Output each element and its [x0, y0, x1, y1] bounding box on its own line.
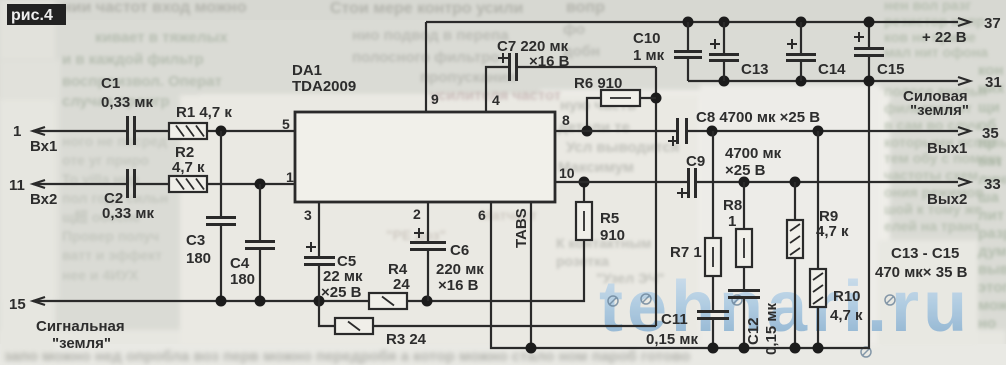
- svg-text:C10: C10: [633, 30, 661, 47]
- wire pin 2 to C6: [427, 202, 429, 241]
- terminal 33 arrow: [958, 178, 970, 186]
- svg-text:"РЕ доз": "РЕ доз": [386, 227, 446, 243]
- wire pin 10 to R5: [583, 182, 585, 202]
- svg-text:C1: C1: [101, 75, 120, 92]
- svg-text:C8 4700 мк ×25 В: C8 4700 мк ×25 В: [696, 109, 820, 126]
- wire C12 to rail: [743, 299, 745, 348]
- node junction R1/C3: [216, 126, 227, 137]
- node C14/rail: [796, 17, 807, 28]
- wire node X vertical: [655, 67, 657, 326]
- wire C8 to output 35: [688, 130, 958, 132]
- svg-text:"земля": "земля": [52, 335, 111, 352]
- svg-text:1: 1: [13, 123, 21, 140]
- svg-text:С12: С12: [745, 317, 762, 345]
- svg-text:9: 9: [431, 91, 439, 107]
- svg-text:24: 24: [393, 276, 410, 293]
- capacitor C13: [709, 55, 739, 61]
- svg-text:31: 31: [985, 74, 1002, 91]
- wire C2 to R2: [136, 183, 169, 185]
- svg-text:×16 В: ×16 В: [438, 277, 479, 294]
- svg-text:этог: этог: [978, 279, 1006, 296]
- capacitor C15: [854, 49, 884, 56]
- capacitor C9: [689, 168, 696, 198]
- svg-text:C14: C14: [818, 61, 846, 78]
- svg-text:35: 35: [982, 125, 999, 142]
- resistor R9: [787, 220, 803, 258]
- svg-text:дум: дум: [978, 243, 1006, 260]
- svg-text:2: 2: [413, 206, 421, 222]
- svg-text:R3 24: R3 24: [386, 331, 427, 348]
- plus sign C14: [787, 39, 797, 49]
- node R9/out2: [790, 177, 801, 188]
- svg-text:910: 910: [600, 227, 625, 244]
- node C11/rail: [708, 343, 719, 354]
- wire C11 to rail: [712, 320, 714, 348]
- wire input2 to C2: [33, 183, 126, 185]
- svg-text:Усл выводится: Усл выводится: [566, 139, 679, 156]
- capacitor C4: [245, 242, 275, 249]
- resistor R5: [576, 202, 592, 240]
- svg-text:TDA2009: TDA2009: [292, 78, 356, 95]
- capacitor C3: [206, 218, 236, 225]
- svg-text:выв: выв: [978, 261, 1006, 278]
- capacitor C8: [678, 118, 687, 144]
- wire pin 4 to C7: [486, 67, 508, 112]
- svg-text:Сигнальная: Сигнальная: [36, 318, 125, 335]
- capacitor C7: [510, 53, 517, 81]
- svg-text:Провер получ: Провер получ: [62, 228, 159, 244]
- plus sign C15: [854, 32, 864, 42]
- wire signal ground rail left: [33, 300, 369, 302]
- svg-text:и в каждой фильтр: и в каждой фильтр: [62, 51, 204, 68]
- svg-text:нее и 4ИУХ: нее и 4ИУХ: [62, 267, 139, 283]
- node R8/out2: [739, 177, 750, 188]
- plus sign C8: [668, 136, 678, 146]
- wire ground rail right of R4 to R5 corner: [406, 240, 584, 301]
- resistor R1: [169, 123, 207, 139]
- svg-text:C13: C13: [741, 61, 769, 78]
- wire C1 to R1: [136, 130, 169, 132]
- svg-text:но: но: [978, 315, 996, 332]
- node C15/rail: [864, 17, 875, 28]
- wire power ground rail: [688, 80, 958, 82]
- C10 value label: [633, 30, 665, 64]
- resistor R6: [601, 90, 640, 106]
- node TABS/rail: [526, 343, 537, 354]
- svg-text:33: 33: [984, 176, 1001, 193]
- capacitor C11: [697, 312, 729, 319]
- svg-text:×25 В: ×25 В: [321, 284, 362, 301]
- wire C15 top segment: [868, 22, 870, 47]
- capacitor C6: [410, 243, 446, 250]
- wire R9 top lead: [794, 182, 796, 220]
- wire input1 to C1: [33, 130, 126, 132]
- wire pin 10 to C9: [555, 181, 687, 183]
- node junction R2/C4: [255, 179, 266, 190]
- svg-text:1 мк: 1 мк: [633, 47, 665, 64]
- R2 value label: [172, 144, 205, 176]
- svg-text:R8: R8: [723, 197, 742, 214]
- svg-text:4,7 к: 4,7 к: [816, 223, 849, 240]
- terminal 37 arrow: [958, 18, 970, 26]
- C3 value label: [186, 232, 211, 267]
- svg-text:"земля": "земля": [910, 102, 969, 119]
- C11 value label: [646, 311, 698, 348]
- wire C6 to node: [427, 251, 429, 301]
- svg-text:1: 1: [286, 169, 294, 185]
- plus sign C13: [710, 39, 720, 49]
- svg-text:рис.4: рис.4: [11, 7, 53, 24]
- node R5/pin10: [579, 177, 590, 188]
- resistor R8: [736, 229, 752, 267]
- node C13/rail: [719, 17, 730, 28]
- wire node to C3: [220, 131, 222, 216]
- svg-text:C4: C4: [230, 255, 250, 272]
- svg-text:нен вол разг: нен вол разг: [884, 0, 971, 13]
- wire C9 to output 33: [697, 181, 958, 183]
- C9 value label: [686, 145, 782, 179]
- wire R8 top lead: [743, 182, 745, 229]
- power ground label: [903, 88, 969, 119]
- C1 value label: [101, 75, 153, 111]
- R8 value label: [723, 197, 742, 230]
- capacitor C5: [304, 258, 335, 265]
- node C5/ground: [314, 296, 325, 307]
- svg-text:C3: C3: [186, 232, 205, 249]
- capacitor C14: [786, 55, 816, 61]
- svg-text:С13 - С15: С13 - С15: [891, 245, 959, 262]
- wire pin 3 to C5: [318, 202, 320, 256]
- svg-text:0,15 мк: 0,15 мк: [763, 303, 780, 355]
- figure label ris.4: [7, 4, 66, 25]
- svg-text:1: 1: [728, 213, 736, 230]
- R5 value label: [600, 210, 625, 244]
- node C6/R4: [422, 296, 433, 307]
- node R10/rail: [813, 343, 824, 354]
- C7 value label: [497, 38, 570, 70]
- svg-text:C9: C9: [686, 153, 705, 170]
- capacitor C10: [674, 52, 702, 58]
- terminal 35 arrow: [958, 127, 970, 135]
- wire C13 bottom lead: [723, 62, 725, 81]
- wire C10 top lead: [687, 22, 689, 50]
- node R10/out1: [813, 126, 824, 137]
- wire C4 to ground rail: [259, 249, 261, 301]
- svg-text:4700 мк: 4700 мк: [725, 145, 782, 162]
- svg-text:ного не посред: ного не посред: [62, 133, 167, 149]
- svg-text:лит: лит: [978, 207, 1004, 224]
- svg-text:10: 10: [559, 165, 575, 181]
- svg-text:Вых2: Вых2: [927, 191, 967, 208]
- svg-text:+ 22 В: + 22 В: [922, 29, 967, 46]
- node R9/rail: [790, 343, 801, 354]
- svg-text:Вх1: Вх1: [30, 138, 57, 155]
- wire R8 to C12: [743, 267, 745, 289]
- resistor R3: [335, 318, 373, 334]
- wire R10 top lead: [817, 131, 819, 269]
- C6 value label: [436, 242, 484, 294]
- wire pin 6 down and bottom ground rail: [491, 56, 869, 348]
- wire pin 8 to C8: [555, 130, 676, 132]
- svg-text:DA1: DA1: [292, 62, 322, 79]
- capacitor C2: [128, 169, 135, 198]
- svg-text:4,7 к: 4,7 к: [830, 307, 863, 324]
- svg-text:4: 4: [492, 92, 500, 108]
- svg-text:37: 37: [984, 15, 1001, 32]
- svg-text:220 мк: 220 мк: [436, 261, 484, 278]
- svg-text:5: 5: [282, 116, 290, 132]
- node R6/C7: [651, 93, 662, 104]
- wire R3 jog from ground node: [319, 301, 335, 326]
- node C12/rail: [739, 343, 750, 354]
- wire node to C4: [259, 184, 261, 240]
- capacitor C12: [728, 291, 760, 298]
- svg-text:11: 11: [9, 177, 25, 194]
- node C14/ground: [796, 76, 807, 87]
- svg-text:R6 910: R6 910: [574, 75, 622, 92]
- svg-text:кивает в тяжелых: кивает в тяжелых: [95, 29, 228, 46]
- C4 value label: [230, 255, 255, 288]
- capacitor C1: [128, 116, 135, 145]
- wire TABS pin down: [530, 202, 532, 348]
- svg-text:Вх2: Вх2: [30, 191, 57, 208]
- wire R6 right lead: [640, 97, 656, 99]
- wire C14 bottom lead: [800, 62, 802, 81]
- terminal 11 arrow Vx2: [33, 180, 45, 188]
- R10 value label: [830, 288, 863, 324]
- wire C7 to node X: [518, 66, 656, 68]
- wire R7 top lead: [712, 131, 714, 238]
- svg-text:елей на транз: елей на транз: [884, 218, 980, 234]
- svg-text:470 мк× 35 В: 470 мк× 35 В: [875, 264, 968, 281]
- svg-text:воспроизвол. Операт: воспроизвол. Операт: [62, 73, 222, 90]
- wire R9 bottom lead: [794, 258, 796, 348]
- resistor R4: [369, 293, 407, 309]
- svg-text:6: 6: [478, 207, 486, 223]
- svg-text:ватт и эффект: ватт и эффект: [62, 247, 162, 263]
- svg-text:Стои мере контро усили: Стои мере контро усили: [330, 0, 523, 17]
- wire C13 top lead: [723, 22, 725, 53]
- op-amp U1 TDA2009 body: [295, 112, 555, 202]
- C5 value label: [321, 253, 363, 301]
- svg-text:нио подвод в перепа: нио подвод в перепа: [352, 27, 509, 44]
- svg-text:C6: C6: [450, 242, 469, 259]
- plus sign C9: [677, 188, 687, 198]
- svg-text:щи: щи: [978, 99, 1000, 116]
- svg-text:С11: С11: [661, 311, 688, 328]
- node C10/rail: [683, 17, 694, 28]
- svg-text:ват: ват: [978, 153, 1003, 170]
- svg-text:22 мк: 22 мк: [323, 268, 363, 285]
- node C3/ground: [216, 296, 227, 307]
- plus sign C5: [306, 242, 316, 252]
- C2 value label: [102, 190, 154, 222]
- svg-text:4,7 к: 4,7 к: [172, 159, 205, 176]
- svg-text:мал нит офона: мал нит офона: [884, 44, 988, 60]
- node C15/ground: [864, 76, 875, 87]
- svg-text:оте уг приро: оте уг приро: [62, 152, 149, 168]
- node C13/ground: [719, 76, 730, 87]
- resistor R7: [705, 238, 721, 276]
- IC designator DA1 TDA2009: [292, 62, 356, 95]
- svg-text:0,33 мк: 0,33 мк: [102, 205, 154, 222]
- wire R6 left lead to pin 8 line: [587, 98, 601, 131]
- wire R1 to pin 5: [207, 130, 295, 132]
- svg-text:0,33 мк: 0,33 мк: [101, 94, 153, 111]
- svg-text:R10: R10: [833, 288, 861, 305]
- svg-text:×16 В: ×16 В: [529, 53, 570, 70]
- R9 value label: [816, 208, 849, 240]
- R4 value label: [388, 261, 410, 293]
- resistor R10: [810, 269, 826, 307]
- node R6/pin8: [582, 126, 593, 137]
- svg-text:15: 15: [9, 296, 26, 313]
- wire C5 to ground: [318, 265, 320, 301]
- wire C14 top lead: [800, 22, 802, 53]
- svg-text:нии частот вход можно: нии частот вход можно: [62, 0, 247, 16]
- wire +22V rail: [426, 21, 958, 23]
- wire R3 to node X: [373, 325, 656, 327]
- terminal 15 arrow signal ground: [33, 297, 45, 305]
- wire pin 9 to +22V rail: [425, 22, 427, 112]
- wire C10 bottom lead: [687, 59, 689, 81]
- terminal 31 arrow: [958, 77, 970, 85]
- svg-text:×25 В: ×25 В: [725, 162, 766, 179]
- svg-text:180: 180: [230, 271, 255, 288]
- svg-text:вопр: вопр: [566, 0, 605, 16]
- svg-text:мож: мож: [978, 297, 1006, 314]
- node R7/out1: [707, 126, 718, 137]
- wire R7 to C11: [712, 276, 714, 310]
- svg-text:0,15 мк: 0,15 мк: [646, 331, 698, 348]
- wire C3 to ground rail: [220, 226, 222, 301]
- svg-text:3: 3: [304, 207, 312, 223]
- svg-text:фо: фо: [563, 21, 585, 38]
- resistor R2: [169, 176, 207, 192]
- svg-text:R1 4,7 к: R1 4,7 к: [176, 104, 232, 121]
- svg-text:R5: R5: [600, 210, 619, 227]
- terminal 1 arrow Vx1: [33, 127, 45, 135]
- svg-text:Вых1: Вых1: [927, 140, 967, 157]
- svg-text:C15: C15: [877, 61, 905, 78]
- wire R2 to pin 1: [207, 183, 295, 185]
- svg-text:разр: разр: [978, 225, 1006, 242]
- C13-C15 value label: [875, 245, 968, 281]
- node C4/ground: [255, 296, 266, 307]
- svg-text:8: 8: [562, 112, 570, 128]
- wire R10 bottom lead: [817, 307, 819, 348]
- svg-text:пропускания: пропускания: [420, 69, 516, 86]
- svg-text:R7 1: R7 1: [670, 244, 702, 261]
- plus sign C7: [498, 53, 508, 63]
- svg-text:180: 180: [186, 250, 211, 267]
- C12 value label rotated: [745, 303, 780, 355]
- plus sign C6: [414, 228, 424, 238]
- svg-text:TABS: TABS: [513, 208, 530, 248]
